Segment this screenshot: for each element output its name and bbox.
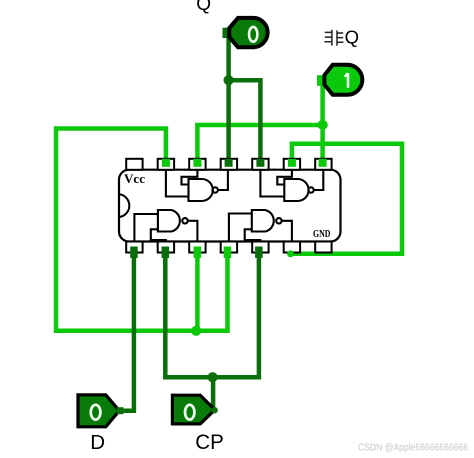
pin 7 (GND) box [315,242,331,253]
terminal dot pin6-bottom [287,250,294,257]
IC notch [119,194,129,217]
pin 4 stub [224,247,232,259]
wire net B: ~Q vertical into pin8-top [320,82,325,168]
svg-text:Vcc: Vcc [124,172,145,186]
input CP value 0 [185,405,194,420]
probe Q body [229,18,267,47]
gate U1B bottom-right NAND (pins 4,5 -> 6) [229,210,292,242]
svg-text:CP: CP [195,431,224,454]
pin 2 stub [162,247,170,259]
junction left loop [191,326,201,336]
wire net A branch: pin3-bottom drop [195,251,200,331]
pin 4 box [221,242,237,253]
gate U1C top-right NAND (pins 9,10 -> 8) [260,170,323,201]
junction Q net [224,75,234,85]
pin 6 box [284,242,300,253]
pin 13 box [158,159,174,170]
probe ~Q body [324,65,362,95]
wire net A: pin13-top / pin1b / pin2b left loop [56,129,228,331]
svg-text:GND: GND [313,229,331,240]
input D terminal [117,407,124,414]
pin 10 box [252,159,268,170]
pin 11 box [221,159,237,170]
pin 5 stub [255,247,263,259]
input CP body [172,395,214,424]
gate U1D top-left NAND (pins 12,13 -> 11) [166,170,228,201]
pin 9 box [284,159,300,170]
wire net CP branch down to CP input [211,377,216,410]
junction ~Q net [318,120,328,130]
label ~Q: glyph 非 drawn [324,30,343,46]
svg-text:CSDN @Apple66666666666: CSDN @Apple66666666666 [358,443,468,454]
wire net C: pin6 right loop [291,144,403,254]
pin 3 stub [194,247,202,259]
pin 1 stub [130,247,138,259]
input CP terminal [211,407,217,413]
probe ~Q tab [317,75,326,86]
wire net D: input D to pin1-bottom [120,251,134,411]
gate U1A bottom-left NAND (pins 1,2 -> 3) [134,210,197,242]
pin 13 stub [162,159,170,167]
probe Q tab [223,28,232,38]
pin 14 (Vcc) box [126,159,142,170]
wire net Q: probe down to pin11-top [226,34,231,168]
pin 9 stub [288,159,296,167]
junction CP net [208,372,218,382]
pin 1 box [126,242,142,253]
input D body [78,395,119,427]
svg-text:Q: Q [196,0,211,15]
pin 8 box [315,159,331,170]
pin 3 box [189,242,205,253]
wire net Q branch to pin10-top [229,80,261,168]
IC body [119,170,341,242]
pin 5 box [252,242,268,253]
svg-text:D: D [90,431,105,454]
pin 8 stub [319,159,327,167]
pin 12 stub [193,159,201,167]
probe ~Q value 1 [345,73,348,88]
pin 12 box [189,159,205,170]
pin 10 stub [256,159,264,167]
pin 11 stub [225,159,233,167]
input D value 0 [91,405,101,420]
wire net CP: pin2-bottom to pin5-bottom [165,251,259,377]
pin 2 box [158,242,174,253]
probe Q value 0 [249,27,257,42]
svg-text:Q: Q [345,27,359,48]
wire net B: ~Q to pin12-top horizontal [197,125,322,168]
